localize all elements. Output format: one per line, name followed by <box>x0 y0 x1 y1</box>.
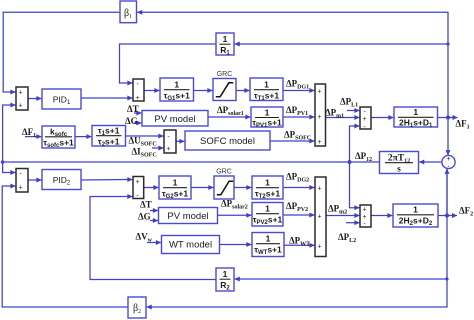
svg-text:ΔT: ΔT <box>140 200 152 210</box>
svg-text:+: + <box>317 139 321 146</box>
svg-text:1: 1 <box>413 205 418 215</box>
svg-text:1: 1 <box>174 80 179 90</box>
svg-text:+: + <box>166 146 170 153</box>
svg-text:ΔPL1: ΔPL1 <box>340 97 358 109</box>
svg-text:ΔG: ΔG <box>125 116 138 126</box>
svg-text:WT model: WT model <box>169 240 212 251</box>
svg-text:+: + <box>446 156 450 163</box>
svg-text:+: + <box>317 214 321 221</box>
svg-text:ΔP12: ΔP12 <box>355 151 372 163</box>
svg-text:1: 1 <box>223 34 228 44</box>
svg-text:ΔPDG1: ΔPDG1 <box>286 79 309 91</box>
svg-text:1: 1 <box>265 204 270 214</box>
svg-text:GRC: GRC <box>216 169 232 176</box>
svg-text:2H1s+D1: 2H1s+D1 <box>399 118 433 130</box>
svg-text:+: + <box>317 89 321 96</box>
svg-text:1: 1 <box>265 108 270 118</box>
svg-text:ΔG: ΔG <box>138 212 151 222</box>
svg-text:ΔPsolar2: ΔPsolar2 <box>221 199 248 211</box>
svg-text:ΔT: ΔT <box>127 104 139 114</box>
svg-text:ΔPL2: ΔPL2 <box>338 232 356 244</box>
svg-text:+: + <box>135 179 139 186</box>
svg-text:ΔF2: ΔF2 <box>459 206 473 218</box>
svg-text:1: 1 <box>173 178 178 188</box>
svg-text:SOFC model: SOFC model <box>200 136 255 147</box>
svg-text:2H2s+D2: 2H2s+D2 <box>399 216 433 228</box>
svg-text:ΔPDG2: ΔPDG2 <box>286 172 309 184</box>
svg-text:1: 1 <box>264 80 269 90</box>
svg-text:+: + <box>18 103 22 110</box>
svg-text:+: + <box>362 214 366 221</box>
svg-text:ΔPSOFC: ΔPSOFC <box>284 130 311 142</box>
svg-text:1: 1 <box>413 107 418 117</box>
svg-text:+: + <box>362 207 366 214</box>
svg-text:1: 1 <box>223 269 228 279</box>
svg-text:ΔVw: ΔVw <box>136 232 153 244</box>
svg-text:+: + <box>317 244 321 251</box>
svg-text:1: 1 <box>266 234 271 244</box>
svg-text:τ2s+1: τ2s+1 <box>98 137 120 149</box>
svg-text:GRC: GRC <box>217 71 233 78</box>
svg-text:ΔPPV2: ΔPPV2 <box>286 201 308 213</box>
svg-text:ΔPPV1: ΔPPV1 <box>286 105 308 117</box>
svg-text:ΔPsolar1: ΔPsolar1 <box>217 105 244 117</box>
svg-text:1: 1 <box>265 178 270 188</box>
svg-text:ΔF1: ΔF1 <box>456 119 470 131</box>
svg-text:+: + <box>362 116 366 123</box>
svg-text:+: + <box>135 95 139 102</box>
svg-text:PV model: PV model <box>167 211 208 222</box>
svg-text:s: s <box>397 165 401 175</box>
svg-text:+: + <box>317 186 321 193</box>
svg-text:ΔPm2: ΔPm2 <box>328 204 347 216</box>
svg-text:+: + <box>18 185 22 192</box>
svg-text:PV model: PV model <box>154 114 195 125</box>
svg-text:+: + <box>317 114 321 121</box>
svg-text:+: + <box>18 90 22 97</box>
